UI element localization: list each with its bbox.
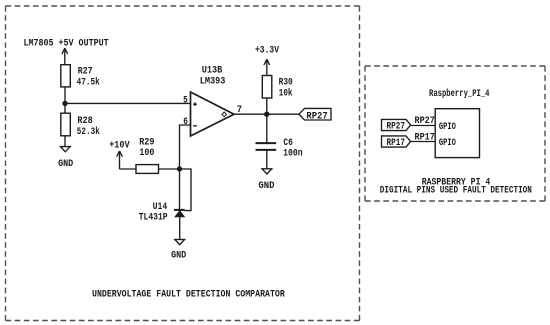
node divider junction [62,101,67,106]
resistor R27 [61,65,71,87]
svg-text:R27: R27 [78,66,93,77]
svg-text:5: 5 [183,94,188,105]
resistor R29 [136,165,159,174]
wire RP17 to GPIO [411,141,436,143]
svg-text:UNDERVOLTAGE FAULT DETECTION C: UNDERVOLTAGE FAULT DETECTION COMPARATOR [92,288,285,299]
svg-text:U14: U14 [153,201,168,212]
resistor R30 [262,76,272,99]
frame: raspberry pi dashed box [365,66,545,201]
ground TL431 [174,240,186,245]
label R28 value [77,115,100,137]
node ref junction [177,166,182,171]
shunt regulator U14 TL431P [174,210,185,217]
label R30 value [279,77,293,99]
wire TL431 anode to GND [179,217,181,240]
svg-text:100: 100 [139,147,154,158]
op-amp plus marker [193,102,197,106]
label C6 value [283,137,303,159]
wire junction down to TL431 cathode [179,169,181,210]
wire op-amp output [234,113,299,115]
svg-text:52.3k: 52.3k [77,126,100,137]
svg-text:R30: R30 [279,77,293,88]
svg-text:R28: R28 [77,115,93,126]
op-amp U13B [191,92,235,136]
svg-text:10k: 10k [279,88,293,99]
wire junction to op-amp pin 5 [65,102,191,104]
net tag RP27 (comparator output) [299,108,331,120]
power flag +10V [117,151,123,169]
svg-text:RP17: RP17 [387,137,406,148]
wire R29 to junction [159,168,180,170]
open-collector diamond [222,112,227,117]
power flag +3.3V [264,59,270,75]
svg-text:100n: 100n [283,147,303,158]
op-amp minus marker [193,125,197,127]
node output junction [264,112,269,117]
svg-text:RP27: RP27 [306,110,327,121]
ground C6 [261,169,273,174]
svg-text:U13B: U13B [202,65,223,76]
svg-text:LM7805 +5V OUTPUT: LM7805 +5V OUTPUT [24,38,109,49]
wire C6 to GND [266,150,268,169]
svg-text:Raspberry_PI_4: Raspberry_PI_4 [429,88,490,99]
svg-text:GPIO: GPIO [439,121,456,132]
frame: undervoltage comparator dashed box [6,6,360,321]
svg-text:LM393: LM393 [200,76,226,87]
svg-text:C6: C6 [283,137,293,148]
resistor R28 [61,113,71,136]
svg-text:RP27: RP27 [387,121,406,132]
svg-text:RP27: RP27 [415,115,435,126]
wire op-amp pin 6 [180,125,191,169]
svg-text:GND: GND [58,158,73,169]
svg-text:7: 7 [237,104,242,115]
svg-text:GND: GND [258,180,274,191]
wire feedback loop to ref pin [180,169,192,211]
net tag RP17 (pi side) [382,136,411,147]
power flag +5V [62,48,68,64]
wire R28 to GND [64,136,66,147]
wire +10V to R29 [120,168,137,170]
svg-text:+3.3V: +3.3V [255,44,279,55]
label R27 value [77,66,100,88]
svg-text:DIGITAL PINS USED FAULT DETECT: DIGITAL PINS USED FAULT DETECTION [380,185,532,196]
ground divider [60,147,72,152]
wire R27 bottom to junction [64,87,66,113]
svg-text:TL431P: TL431P [139,211,168,222]
IC GPIO block [435,109,479,158]
wire R30 to output junction [266,98,268,143]
svg-text:47.5k: 47.5k [77,76,100,87]
svg-text:R29: R29 [139,136,154,147]
svg-text:GPIO: GPIO [439,137,456,148]
wire RP27 to GPIO [411,125,436,127]
capacitor C6 [256,143,277,150]
svg-text:+10V: +10V [109,139,129,150]
net tag RP27 (pi side) [382,119,411,130]
svg-text:GND: GND [171,250,186,261]
svg-text:RP17: RP17 [415,131,435,142]
label R29 value [139,136,154,158]
